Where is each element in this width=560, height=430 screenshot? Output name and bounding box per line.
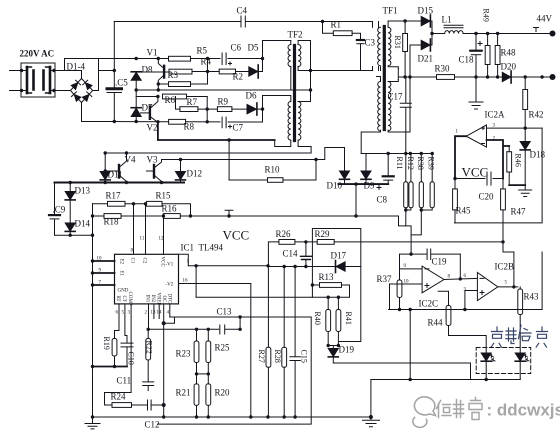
svg-text:D5: D5 xyxy=(248,43,259,53)
junction dot rail416 end xyxy=(369,415,373,419)
svg-text:V2: V2 xyxy=(147,123,158,133)
transistor V3 xyxy=(154,160,162,183)
resistor R7 xyxy=(180,107,198,112)
wire bottom rail y121 xyxy=(114,121,262,124)
resistor R23 xyxy=(194,329,199,384)
label charge float xyxy=(491,325,547,347)
svg-text:D21: D21 xyxy=(418,54,434,64)
capacitor C5 xyxy=(107,22,122,122)
IC1 top pin stubs xyxy=(134,204,164,255)
wire R42 leads xyxy=(524,77,526,128)
resistor R16 xyxy=(163,214,180,219)
svg-text:RT: RT xyxy=(115,296,120,302)
svg-text:D15: D15 xyxy=(418,6,434,16)
junction dots rail159 xyxy=(179,158,318,161)
op-amp IC2C xyxy=(422,266,444,293)
wire IC2A minus input xyxy=(487,140,510,179)
TF1 primary lower winding xyxy=(378,82,381,131)
junction dot emitter row xyxy=(227,138,230,141)
svg-text:R1: R1 xyxy=(331,20,342,30)
svg-text:D19: D19 xyxy=(339,345,355,355)
junction dot R1 top xyxy=(321,20,324,23)
wire row y296.7 xyxy=(196,285,349,297)
resistor R45 xyxy=(453,189,458,210)
TF2 secondary upper winding xyxy=(298,44,301,66)
resistor R5 xyxy=(169,56,191,61)
resistor R21 xyxy=(194,384,199,417)
wire V3 base lead xyxy=(147,170,155,172)
svg-text:R40: R40 xyxy=(313,312,322,325)
svg-text:10: 10 xyxy=(404,280,410,285)
wire emitter row y89.5 xyxy=(136,89,310,91)
svg-text:R8: R8 xyxy=(184,122,195,132)
wire IC2C minus input xyxy=(400,268,423,270)
wire R23 R21 junction row xyxy=(197,373,209,375)
wire secondary centre row y76.5 xyxy=(398,69,552,80)
junction dots R11 R38 bottoms xyxy=(404,208,423,211)
svg-text:R37: R37 xyxy=(377,274,393,284)
resistor R43 xyxy=(518,287,523,353)
diode D14 xyxy=(65,223,75,235)
wire R6 row xyxy=(187,96,208,98)
svg-text:R20: R20 xyxy=(215,388,231,398)
IC1 TL494 body xyxy=(115,254,179,304)
svg-text:: ddcwxjs: : ddcwxjs xyxy=(487,401,560,420)
svg-text:C19: C19 xyxy=(432,257,448,267)
svg-text:R30: R30 xyxy=(435,64,451,74)
resistor R49 xyxy=(485,46,490,65)
svg-text:R25: R25 xyxy=(215,343,231,353)
junction dots row309 xyxy=(398,308,467,311)
svg-text:R12: R12 xyxy=(406,157,415,170)
svg-text:D11: D11 xyxy=(108,170,123,180)
svg-text:-V1: -V1 xyxy=(166,263,174,268)
svg-text:D14: D14 xyxy=(75,219,91,229)
wire x195.6 drop xyxy=(195,266,197,297)
capacitor C7 xyxy=(222,117,226,128)
capacitor C19 xyxy=(400,249,461,260)
TF1 secondary upper winding xyxy=(388,27,391,65)
svg-text:R28: R28 xyxy=(273,350,282,363)
resistor R48 xyxy=(495,46,500,65)
wire emitter row riser to TF2 xyxy=(275,140,291,147)
junction dots rail182 xyxy=(69,181,164,184)
junction dot C12 node xyxy=(162,403,166,407)
junction dots x310 xyxy=(309,69,312,92)
wire R45 leads xyxy=(454,179,456,223)
svg-text:D18: D18 xyxy=(530,150,546,160)
svg-text:R11: R11 xyxy=(395,157,404,170)
wire rail379 to ground xyxy=(370,380,372,418)
wire TF2 right vertical x310 xyxy=(310,41,312,102)
capacitor C12 xyxy=(148,400,152,410)
junction dots row89.5 xyxy=(135,88,161,91)
capacitor C6 xyxy=(222,53,226,65)
junction dots row345 xyxy=(327,344,341,347)
svg-text:VCC: VCC xyxy=(462,165,489,180)
IC1 pin1 stub xyxy=(179,254,189,265)
junction dots C5 xyxy=(113,69,116,123)
svg-text:D6: D6 xyxy=(246,91,257,101)
diode D11 xyxy=(100,153,110,183)
svg-text:R9: R9 xyxy=(218,97,229,107)
TF2 secondary lower winding xyxy=(298,102,301,141)
wire R2 to D5 xyxy=(208,41,291,72)
capacitor C13 xyxy=(220,325,225,334)
svg-text:DTC: DTC xyxy=(167,294,172,305)
IC1 bottom pin stubs xyxy=(105,304,170,417)
resistor R41 xyxy=(336,297,341,345)
junction dot R31 top xyxy=(403,19,406,22)
junction dot R13 left xyxy=(311,283,314,286)
output terminal bottom xyxy=(550,74,556,80)
capacitor C10 xyxy=(121,343,133,366)
resistor R26 xyxy=(279,240,295,245)
diode D9 xyxy=(361,154,371,185)
svg-text:R26: R26 xyxy=(276,229,292,239)
wire IC2B lower input xyxy=(465,291,478,310)
wire ground row y366 xyxy=(93,366,128,368)
wire LED rail y379 xyxy=(371,379,520,381)
capacitor C17 xyxy=(400,77,411,154)
resistor R6 xyxy=(163,94,187,99)
svg-text:C18: C18 xyxy=(459,55,475,65)
polarity mark C7 xyxy=(229,125,232,128)
svg-text:TF1: TF1 xyxy=(383,6,398,16)
wire V4 base lead xyxy=(105,170,119,172)
VCC tap xyxy=(225,210,233,216)
capacitor C4 xyxy=(241,16,245,27)
svg-text:C8: C8 xyxy=(377,195,388,205)
svg-text:14: 14 xyxy=(157,311,163,316)
ground near C18 xyxy=(469,77,483,109)
svg-text:TF2: TF2 xyxy=(288,30,303,40)
svg-text:V3: V3 xyxy=(147,155,158,165)
wire IC2A plus input row xyxy=(487,127,543,129)
svg-text:IC2B: IC2B xyxy=(495,262,515,272)
diode D21 xyxy=(410,21,432,51)
junction dots row296.7 xyxy=(327,296,341,299)
svg-text:R27: R27 xyxy=(257,350,266,363)
junction dots rail58 xyxy=(135,57,161,60)
junction dots row234.7 xyxy=(69,234,95,237)
svg-text:D12: D12 xyxy=(187,169,203,179)
wire driver collector rail y155 xyxy=(105,147,311,154)
IC1 pin16 row xyxy=(179,284,251,418)
svg-text:R18: R18 xyxy=(104,217,120,227)
svg-text:VREF: VREF xyxy=(156,293,161,306)
svg-text:R38: R38 xyxy=(416,157,425,170)
svg-text:R47: R47 xyxy=(511,207,527,217)
svg-text:IN2: IN2 xyxy=(150,295,155,303)
transistor V4 xyxy=(119,153,127,183)
svg-text:D17: D17 xyxy=(331,251,347,261)
wire D18 R46 ground join xyxy=(509,184,525,186)
junction dots row265.3 xyxy=(194,264,269,267)
resistor R12 xyxy=(406,154,413,226)
svg-text:IN1: IN1 xyxy=(145,295,150,303)
transformer TF2 xyxy=(263,30,312,147)
svg-text:R29: R29 xyxy=(315,229,331,239)
TF2 primary upper winding xyxy=(288,45,291,67)
junction dots rail155 xyxy=(104,151,129,154)
resistor R13 xyxy=(320,283,342,288)
wire x409.7 drop to LED rail xyxy=(409,310,411,380)
junction dot V2 collector xyxy=(156,95,159,98)
junction dot IC2B output xyxy=(512,285,515,288)
wire emitter rail y182 xyxy=(55,182,185,184)
output terminal top xyxy=(550,31,556,37)
svg-text:C14: C14 xyxy=(283,249,299,259)
diode D20 xyxy=(502,71,511,83)
resistor R37 xyxy=(397,269,402,310)
wire D17 row y266 xyxy=(268,266,360,268)
capacitor C14 xyxy=(301,242,312,267)
wire row y153 xyxy=(361,153,433,155)
svg-text:VCC: VCC xyxy=(160,257,165,268)
svg-text:C1: C1 xyxy=(130,258,135,264)
svg-text:C2: C2 xyxy=(142,258,147,264)
wire C9 bottom row xyxy=(55,234,93,236)
junction dots D6 row xyxy=(206,107,265,110)
wire IC2B output xyxy=(498,286,518,288)
resistor R19 xyxy=(112,339,117,367)
terminal mark xyxy=(534,28,539,32)
svg-text:C17: C17 xyxy=(388,92,404,102)
svg-text:C11: C11 xyxy=(117,376,132,386)
svg-text:R16: R16 xyxy=(162,204,178,214)
wire R1 branch xyxy=(323,22,361,40)
svg-text:C20: C20 xyxy=(479,192,495,202)
junction dots row373.4 xyxy=(195,372,210,375)
LED charging xyxy=(481,353,495,380)
watermark text xyxy=(437,398,483,420)
op-amp IC2A xyxy=(466,125,486,147)
resistor R22 xyxy=(146,329,151,381)
resistor R30 xyxy=(437,75,455,80)
resistor R24 xyxy=(112,403,132,408)
junction dots row215.5 xyxy=(91,214,358,217)
diode D6 xyxy=(247,103,257,115)
wire R40 R41 bottom row xyxy=(328,346,338,349)
resistor R11 xyxy=(404,154,408,211)
svg-text:C3: C3 xyxy=(365,38,376,48)
LED dashed box xyxy=(476,348,531,374)
svg-text:R19: R19 xyxy=(102,337,111,350)
resistor R46 xyxy=(507,152,512,172)
svg-text:VCC: VCC xyxy=(223,228,250,243)
resistor R17 xyxy=(108,201,126,206)
diode D18 xyxy=(520,128,530,185)
svg-text:C6: C6 xyxy=(231,43,242,53)
resistor R38 xyxy=(419,154,423,211)
wire rail y58 xyxy=(99,58,169,60)
wire V2 emitter row y139.5 xyxy=(158,122,275,140)
svg-text:R6: R6 xyxy=(165,95,176,105)
svg-text:D9: D9 xyxy=(364,181,375,191)
resistor R8 xyxy=(169,119,186,124)
wire VCC row y178 xyxy=(455,178,504,180)
junction dot C19 row xyxy=(409,252,412,255)
wire left column x92 xyxy=(92,204,94,417)
svg-text:R41: R41 xyxy=(344,312,353,325)
wire bridge frame xyxy=(54,59,114,91)
wire IC2C output xyxy=(444,278,477,279)
junction dot L1 node xyxy=(430,32,433,35)
wire DTC row y316.5 xyxy=(158,317,312,424)
wire R31 leads xyxy=(404,21,406,77)
svg-text:E2: E2 xyxy=(119,259,124,265)
wire R4 row xyxy=(164,71,207,74)
diode D8 xyxy=(131,72,141,90)
diode D7 xyxy=(131,90,141,122)
svg-text:C7: C7 xyxy=(233,123,244,133)
capacitor C11 xyxy=(143,382,154,391)
wire R46 leads xyxy=(508,146,510,185)
svg-text:V4: V4 xyxy=(125,155,136,165)
resistor R25 xyxy=(206,329,211,374)
LED float xyxy=(515,353,529,380)
svg-text:.C9: .C9 xyxy=(53,205,66,215)
resistor R31 xyxy=(403,34,408,52)
resistor R47 xyxy=(501,189,506,210)
wire ground rail y416.5 xyxy=(93,416,371,418)
resistor R20 xyxy=(206,374,211,417)
svg-text:C4: C4 xyxy=(237,6,248,16)
svg-text:R23: R23 xyxy=(176,349,192,359)
junction dot D11 anode xyxy=(104,169,107,172)
svg-text:R45: R45 xyxy=(456,206,472,216)
svg-text:R31: R31 xyxy=(393,36,402,49)
wire VCC supply row y215.5 xyxy=(93,216,412,254)
capacitor C18 xyxy=(470,34,482,78)
resistor R18 xyxy=(104,214,121,219)
wire TF2 terminals xyxy=(263,41,312,147)
wire C19 feedback verticals xyxy=(459,254,461,279)
diode D15 xyxy=(421,15,432,34)
svg-text:CT: CT xyxy=(121,296,126,302)
svg-text:R22: R22 xyxy=(145,341,154,354)
svg-text:D8: D8 xyxy=(142,65,153,75)
IC1 pin stubs left xyxy=(93,261,115,285)
transistor V1 xyxy=(158,59,164,91)
svg-text:R17: R17 xyxy=(106,191,122,201)
wire IC2A output xyxy=(455,136,466,178)
wire C13 row y328.8 xyxy=(148,317,240,329)
svg-text:R46: R46 xyxy=(514,154,523,167)
wire R24 to C12 xyxy=(132,404,148,406)
svg-text:R24: R24 xyxy=(111,392,127,402)
svg-text:R39: R39 xyxy=(427,157,436,170)
junction dots node 207 xyxy=(157,57,210,86)
diode D5 xyxy=(249,65,258,78)
wire R26 row y241.4 xyxy=(295,241,503,243)
wire IC2C plus input xyxy=(390,284,423,310)
svg-text:R2: R2 xyxy=(233,72,244,82)
svg-text:-V2: -V2 xyxy=(166,283,174,288)
junction dots row266 xyxy=(283,265,308,268)
svg-text:C13: C13 xyxy=(217,307,233,317)
IC1 inside pin names xyxy=(115,257,174,306)
ground below D18 xyxy=(519,185,532,196)
TF1 primary upper winding xyxy=(378,27,381,65)
capacitor C20 xyxy=(487,172,491,185)
feedback box outline xyxy=(312,229,360,342)
junction dots rail379 xyxy=(409,378,488,381)
wire C3 bottom row y70 xyxy=(311,67,379,71)
svg-text:IC2A: IC2A xyxy=(485,110,506,120)
junction dot OC node xyxy=(162,321,166,325)
diode D17 xyxy=(336,261,346,273)
junction dots row203.3 xyxy=(132,202,147,205)
svg-text:R7: R7 xyxy=(187,97,198,107)
diode D13 xyxy=(65,183,75,224)
resistor R40 xyxy=(326,297,331,345)
wire R17 R15 row y203.3 xyxy=(93,204,191,216)
bridge rectifier D1-4 diamond xyxy=(70,79,92,103)
wire R37 top xyxy=(399,254,401,269)
svg-text:C12: C12 xyxy=(145,420,160,430)
wire R10 row xyxy=(229,160,316,181)
wire bus to VCC row xyxy=(355,184,357,216)
wire R10 left riser xyxy=(228,140,230,180)
junction dots row366 xyxy=(91,365,116,368)
diode D10 xyxy=(340,171,350,184)
svg-text:C15: C15 xyxy=(300,350,309,363)
svg-text:C10: C10 xyxy=(127,352,136,365)
transistor V2 xyxy=(150,97,158,123)
junction dot VCC row xyxy=(453,177,456,180)
svg-text:220V AC: 220V AC xyxy=(20,49,55,59)
wire AC input leads xyxy=(10,71,22,91)
svg-text:R43: R43 xyxy=(524,292,540,302)
wire V1 base lead xyxy=(136,71,164,73)
capacitor C9 xyxy=(49,183,60,236)
svg-text:IC2C: IC2C xyxy=(419,299,439,309)
svg-text:D10: D10 xyxy=(327,181,343,191)
wire row y309 xyxy=(389,309,543,311)
wire V2 base lead xyxy=(141,112,150,114)
svg-text:12: 12 xyxy=(159,237,165,242)
junction dot R26 right xyxy=(304,240,307,243)
wire R47 leads xyxy=(503,179,514,253)
resistor R1 xyxy=(333,31,352,36)
svg-text:16: 16 xyxy=(183,279,189,284)
wire 44V+ rail y33 xyxy=(463,33,552,35)
capacitor C3 xyxy=(357,40,364,71)
junction dots left pins xyxy=(91,259,94,286)
wire OC jog to DTC row xyxy=(164,317,175,323)
resistor R44 xyxy=(438,291,486,352)
wire R7 row xyxy=(176,97,208,122)
resistor R27 xyxy=(266,266,271,417)
TF2 primary lower winding xyxy=(288,102,291,141)
svg-text:.C5: .C5 xyxy=(115,78,128,88)
TF2 core xyxy=(293,46,296,141)
svg-text:OC: OC xyxy=(161,296,166,304)
resistor R9 xyxy=(217,107,232,112)
wire feedback row y265.3 xyxy=(188,265,268,267)
inductor L1 xyxy=(432,25,476,33)
diode D19 xyxy=(328,349,338,364)
ground symbol right xyxy=(363,417,380,427)
svg-text:R3: R3 xyxy=(168,70,179,80)
ground symbol left xyxy=(85,417,100,429)
wire top rail y21 xyxy=(114,22,378,28)
resistor R3 xyxy=(169,82,191,87)
resistor R2 xyxy=(219,69,235,74)
svg-text:11: 11 xyxy=(140,237,145,242)
